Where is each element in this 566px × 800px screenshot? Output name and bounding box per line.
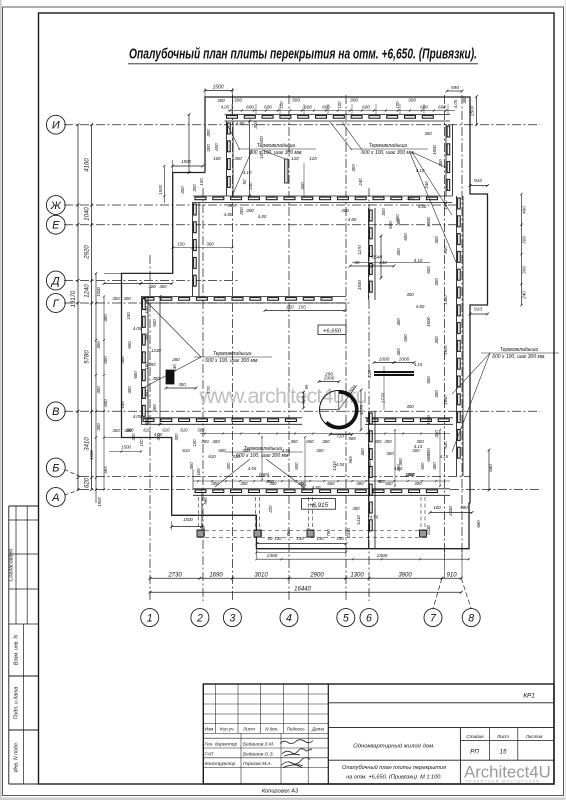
svg-text:300: 300 [234,98,242,104]
svg-text:220: 220 [268,505,273,514]
svg-text:300: 300 [438,159,443,167]
svg-text:Стадия: Стадия [466,734,484,739]
svg-text:1600: 1600 [426,317,431,327]
svg-text:300: 300 [144,418,149,426]
svg-text:1270: 1270 [357,245,362,255]
svg-text:3: 3 [229,612,235,624]
svg-text:Опалубочный план плиты перекры: Опалубочный план плиты перекрытия [342,764,446,771]
svg-text:300: 300 [434,236,439,244]
svg-text:100: 100 [213,156,221,161]
svg-text:1000: 1000 [379,357,390,363]
svg-text:590: 590 [460,505,468,510]
svg-text:4.10: 4.10 [414,258,423,263]
svg-text:300: 300 [211,481,219,486]
svg-text:300: 300 [226,462,231,470]
svg-text:1070: 1070 [359,404,364,415]
svg-text:910: 910 [447,572,458,578]
svg-text:Б: Б [52,462,59,474]
svg-text:300: 300 [96,341,101,349]
svg-text:4.50: 4.50 [370,515,379,520]
svg-text:2: 2 [196,612,203,624]
svg-text:300: 300 [174,433,179,441]
svg-text:Согласовано: Согласовано [9,549,15,582]
svg-text:300: 300 [406,404,414,409]
svg-text:100: 100 [196,468,201,476]
svg-text:1500: 1500 [212,85,223,91]
svg-text:300: 300 [152,376,160,381]
svg-text:300: 300 [322,439,330,444]
svg-text:130: 130 [316,536,324,541]
svg-text:4.10: 4.10 [416,168,425,173]
svg-text:220: 220 [367,370,372,379]
svg-text:1650: 1650 [357,280,362,290]
svg-text:300: 300 [292,98,300,104]
svg-text:19170: 19170 [71,290,77,307]
svg-text:www.architect4u.ru: www.architect4u.ru [198,384,366,408]
svg-text:4.80: 4.80 [236,121,245,126]
svg-text:300: 300 [206,242,214,247]
svg-text:300: 300 [316,448,324,453]
svg-text:3010: 3010 [254,572,268,578]
svg-text:300: 300 [434,278,439,286]
svg-text:60: 60 [268,536,273,541]
svg-text:565: 565 [348,456,353,464]
svg-text:910: 910 [474,307,482,313]
svg-text:600: 600 [133,371,138,379]
svg-text:280: 280 [171,357,180,362]
svg-text:600: 600 [294,462,299,470]
svg-text:300: 300 [246,208,254,213]
svg-text:300: 300 [396,348,401,356]
svg-text:300: 300 [360,448,365,456]
svg-text:300: 300 [522,236,527,244]
svg-text:600: 600 [362,105,370,110]
svg-text:1500: 1500 [470,105,476,116]
svg-text:4: 4 [286,612,292,624]
svg-text:600 х 100, шаг 300 мм.: 600 х 100, шаг 300 мм. [236,453,290,459]
svg-text:А: А [51,492,59,504]
svg-text:4.80: 4.80 [416,304,425,309]
svg-text:100: 100 [126,312,131,320]
svg-text:300: 300 [144,390,149,398]
svg-text:620: 620 [84,477,90,488]
svg-text:Одноквартирный жилой дом.: Одноквартирный жилой дом. [353,743,435,750]
svg-text:300: 300 [386,451,394,456]
svg-text:Листов: Листов [525,734,543,739]
svg-text:1410: 1410 [332,461,337,471]
svg-text:300: 300 [217,98,225,103]
svg-text:Г: Г [53,298,60,310]
svg-text:Термовкладыши: Термовкладыши [500,347,539,353]
svg-text:4.05: 4.05 [221,105,230,110]
svg-text:900: 900 [348,436,356,441]
svg-text:300: 300 [522,266,527,274]
svg-text:300: 300 [123,296,131,301]
svg-text:150: 150 [336,536,344,541]
svg-text:610: 610 [182,448,190,453]
svg-text:Изм.: Изм. [205,727,215,732]
svg-text:565: 565 [203,497,208,505]
svg-text:1500: 1500 [377,553,388,559]
svg-text:610: 610 [143,428,151,433]
svg-text:300: 300 [144,333,149,341]
svg-text:300: 300 [381,208,386,216]
svg-text:Ж: Ж [50,200,62,212]
svg-text:300: 300 [180,186,185,194]
svg-text:300: 300 [192,184,197,192]
svg-text:4.15: 4.15 [440,454,449,459]
svg-text:Лист: Лист [496,734,509,739]
svg-text:130: 130 [172,364,177,372]
svg-text:300: 300 [396,318,401,326]
svg-text:4.10: 4.10 [243,170,252,175]
svg-text:4.55: 4.55 [336,462,345,467]
svg-text:300: 300 [408,98,416,104]
svg-text:150: 150 [286,305,294,310]
svg-text:6: 6 [366,612,372,624]
svg-text:170: 170 [206,386,211,394]
svg-text:300: 300 [406,196,414,201]
svg-text:610: 610 [232,454,240,459]
svg-text:600: 600 [327,481,335,486]
svg-text:300: 300 [462,96,467,104]
svg-text:И: И [52,120,60,132]
svg-text:300: 300 [96,423,101,431]
svg-text:3410: 3410 [84,437,90,451]
svg-text:1500: 1500 [97,497,102,507]
svg-text:640: 640 [443,246,448,254]
svg-text:300: 300 [178,382,186,387]
svg-text:600: 600 [403,233,408,241]
svg-text:100: 100 [177,242,185,247]
svg-text:300: 300 [416,439,424,444]
svg-text:2430: 2430 [346,528,351,539]
svg-text:1500: 1500 [96,287,101,297]
svg-text:Лист: Лист [242,727,255,732]
svg-text:100: 100 [139,439,144,447]
svg-text:1300: 1300 [267,553,278,559]
svg-text:790: 790 [326,529,331,537]
svg-text:1500: 1500 [181,159,192,164]
svg-text:100: 100 [144,306,149,314]
svg-text:100: 100 [120,401,125,409]
svg-text:Опалубочный план плиты перекры: Опалубочный план плиты перекрытия на отм… [129,47,477,63]
svg-text:600: 600 [403,334,408,342]
svg-text:610: 610 [180,428,188,433]
svg-text:600: 600 [322,105,330,110]
svg-text:1600: 1600 [426,415,431,425]
svg-text:Взам. инв. N: Взам. инв. N [14,635,20,665]
svg-text:610: 610 [208,454,216,459]
svg-text:600 х 100, шаг 300 мм.: 600 х 100, шаг 300 мм. [361,150,415,156]
svg-text:600: 600 [127,341,132,349]
svg-text:300: 300 [396,218,401,226]
svg-text:2920: 2920 [84,245,90,260]
svg-text:4.05: 4.05 [453,99,458,108]
svg-text:4.50: 4.50 [312,485,321,490]
svg-text:400: 400 [352,506,360,511]
svg-text:4.05: 4.05 [133,414,142,419]
svg-text:300: 300 [126,428,134,433]
svg-text:140: 140 [296,536,304,541]
svg-text:100: 100 [259,151,264,159]
svg-text:600: 600 [388,221,393,229]
svg-text:3900: 3900 [398,572,412,578]
svg-text:Подпись: Подпись [287,727,306,732]
svg-text:1300: 1300 [350,572,364,578]
svg-text:Термовкладыши: Термовкладыши [369,143,408,149]
svg-text:300: 300 [212,439,220,444]
svg-text:600: 600 [420,462,425,470]
svg-text:N док.: N док. [265,727,278,732]
svg-text:300: 300 [432,462,437,470]
svg-text:100: 100 [144,362,149,370]
svg-text:100: 100 [192,439,197,447]
svg-text:100: 100 [395,101,400,109]
svg-text:300: 300 [412,448,420,453]
svg-text:ПРОЕКТНАЯ МАСТЕРСКАЯ: ПРОЕКТНАЯ МАСТЕРСКАЯ [466,780,541,784]
svg-text:Дата: Дата [311,727,325,732]
svg-text:300: 300 [156,433,161,441]
svg-text:240: 240 [358,178,363,187]
svg-text:1480: 1480 [443,295,448,305]
svg-text:600: 600 [304,105,312,110]
svg-text:4.80: 4.80 [348,217,357,222]
svg-text:600: 600 [152,404,157,412]
svg-text:565: 565 [377,479,385,484]
svg-text:600: 600 [306,439,314,444]
svg-text:300: 300 [131,433,136,441]
svg-text:300: 300 [96,386,101,394]
svg-text:300: 300 [351,164,356,172]
svg-text:120: 120 [309,156,317,161]
svg-text:300: 300 [127,386,132,394]
svg-text:300: 300 [112,428,120,433]
svg-text:130: 130 [274,536,282,541]
svg-text:300: 300 [384,439,392,444]
svg-text:300: 300 [234,156,242,161]
svg-text:1500: 1500 [183,517,193,522]
svg-text:1410: 1410 [356,515,361,525]
svg-text:120: 120 [291,156,299,161]
svg-text:4.80: 4.80 [258,214,267,219]
svg-text:4.15: 4.15 [414,362,423,367]
svg-text:600: 600 [438,105,446,110]
svg-text:300: 300 [434,390,439,398]
svg-text:300: 300 [341,208,349,213]
svg-text:Горохов М.А.: Горохов М.А. [243,761,272,767]
svg-text:Е: Е [52,220,60,232]
svg-text:600: 600 [367,460,372,468]
svg-text:5780: 5780 [84,350,90,364]
svg-text:2900: 2900 [309,572,324,578]
svg-text:100: 100 [279,101,284,109]
svg-text:600: 600 [426,448,431,456]
svg-text:290: 290 [324,372,333,378]
svg-text:5: 5 [343,612,349,624]
svg-text:Д: Д [50,275,60,287]
svg-text:300: 300 [374,439,382,444]
svg-text:150: 150 [298,305,306,310]
svg-text:Инв. N подл.: Инв. N подл. [14,742,20,772]
svg-text:на отм. +6,650. (Привязки). М: на отм. +6,650. (Привязки). М 1:100. [346,775,442,781]
svg-text:300: 300 [434,336,439,344]
svg-text:4.80: 4.80 [418,204,427,209]
svg-text:610: 610 [162,428,170,433]
svg-text:910: 910 [474,178,482,184]
svg-text:600: 600 [426,376,431,384]
svg-text:600: 600 [214,143,219,151]
svg-text:300: 300 [406,292,414,297]
svg-text:1770: 1770 [381,392,386,403]
svg-text:4.05: 4.05 [133,326,142,331]
svg-text:8: 8 [468,612,474,624]
svg-text:600: 600 [385,481,393,486]
svg-text:1600: 1600 [426,217,431,227]
svg-text:Копировал А3: Копировал А3 [262,789,299,795]
svg-text:300: 300 [112,296,120,301]
svg-text:1690: 1690 [209,572,223,578]
svg-text:90: 90 [242,179,247,185]
svg-text:1500: 1500 [158,184,163,195]
svg-text:300: 300 [206,144,211,152]
svg-text:300: 300 [120,356,125,364]
svg-text:600: 600 [264,105,272,110]
svg-text:300: 300 [159,284,167,289]
svg-text:300: 300 [148,284,156,289]
svg-text:640: 640 [443,441,448,449]
svg-text:590: 590 [451,85,459,91]
svg-text:4160: 4160 [84,158,90,172]
svg-text:600: 600 [259,136,264,144]
svg-text:(600): (600) [259,472,270,477]
svg-text:Подп. и дата: Подп. и дата [14,687,20,720]
svg-text:1300: 1300 [405,472,415,477]
svg-text:Конструктор: Конструктор [205,761,236,767]
svg-text:600 х 100, шаг 300 мм.: 600 х 100, шаг 300 мм. [492,354,546,360]
svg-text:300: 300 [189,462,194,470]
svg-text:1640: 1640 [443,395,448,405]
svg-text:1: 1 [147,612,153,624]
svg-text:300: 300 [228,203,236,208]
svg-text:600: 600 [246,105,254,110]
svg-text:300: 300 [396,248,401,256]
svg-text:Ген. директор: Ген. директор [205,742,238,748]
svg-text:300: 300 [290,439,298,444]
svg-text:4.80: 4.80 [224,212,233,217]
svg-text:600: 600 [218,448,226,453]
svg-text:1640: 1640 [443,200,448,210]
svg-text:+6,915: +6,915 [309,502,329,509]
svg-text:1600: 1600 [443,345,448,355]
svg-text:95: 95 [304,384,309,389]
svg-text:1040: 1040 [84,207,90,221]
svg-text:ГАП: ГАП [205,751,214,757]
svg-text:240: 240 [424,181,429,190]
svg-text:680: 680 [476,520,481,528]
svg-text:4.55: 4.55 [282,448,291,453]
svg-text:16440: 16440 [294,587,311,593]
svg-text:1500: 1500 [121,445,131,450]
svg-text:600: 600 [426,266,431,274]
svg-text:300: 300 [242,448,250,453]
svg-text:600: 600 [152,319,157,327]
svg-text:В: В [52,406,59,418]
svg-text:100: 100 [433,505,441,510]
svg-text:300: 300 [424,131,432,136]
svg-text:240: 240 [522,291,527,300]
svg-text:300: 300 [197,428,205,433]
svg-text:Термовкладыши: Термовкладыши [213,351,252,357]
svg-text:100: 100 [199,178,204,186]
svg-text:240: 240 [248,182,253,191]
svg-text:460: 460 [522,206,527,214]
svg-text:2430: 2430 [448,506,453,517]
svg-text:КР1: КР1 [523,693,535,700]
svg-text:300: 300 [240,481,248,486]
svg-text:4.55: 4.55 [248,466,257,471]
svg-text:300: 300 [206,129,211,137]
svg-text:300: 300 [356,481,364,486]
svg-text:15: 15 [500,749,507,756]
svg-text:600 х 100, шаг 300 мм.: 600 х 100, шаг 300 мм. [205,358,259,364]
svg-text:2730: 2730 [167,572,182,578]
svg-text:300: 300 [253,121,258,129]
svg-text:300: 300 [269,481,277,486]
svg-text:РП: РП [470,749,479,756]
svg-text:1000: 1000 [399,357,410,363]
svg-text:1240: 1240 [84,284,90,298]
svg-text:1600: 1600 [432,145,437,155]
svg-text:Бедашов З.М.: Бедашов З.М. [243,742,274,748]
svg-text:Бедашов О.З.: Бедашов О.З. [243,751,274,757]
svg-text:300: 300 [239,207,244,215]
svg-text:300: 300 [201,439,209,444]
svg-text:Кол.уч: Кол.уч [220,727,234,732]
svg-text:300: 300 [398,458,403,466]
svg-text:+6,650: +6,650 [323,328,342,334]
svg-text:300: 300 [350,98,358,104]
svg-text:790: 790 [286,529,291,537]
svg-text:100: 100 [337,101,342,109]
svg-text:1500: 1500 [89,450,94,460]
